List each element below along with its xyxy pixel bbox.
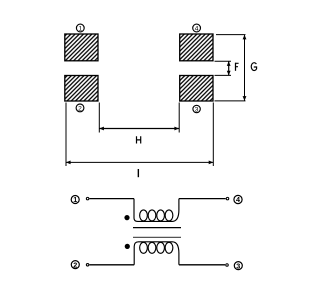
core line 1: [133, 227, 181, 229]
dimension G line with arrows: [244, 35, 246, 101]
terminal pin 4: [226, 197, 229, 200]
dimension F extension lines: [215, 61, 232, 75]
pin label 1 (schematic): [71, 195, 79, 204]
dimension I extension lines: [66, 103, 213, 167]
terminal pin 2: [86, 264, 89, 267]
pin label 2 (schematic): [71, 260, 79, 269]
svg-text:1: 1: [78, 25, 82, 32]
wire coil to pin4: [179, 198, 226, 200]
pad 1 (top-left, hatched): [65, 34, 98, 61]
polarity dot L1: [124, 215, 129, 220]
dimension H line with arrows: [99, 128, 179, 130]
label F: [235, 63, 239, 71]
svg-text:2: 2: [73, 260, 77, 269]
pin label 1 (top drawing): [76, 24, 84, 32]
polarity dot L2: [125, 244, 130, 249]
terminal pin 1: [86, 197, 89, 200]
pin label 2 (top drawing): [76, 104, 84, 112]
pad 3 (bottom-right, hatched): [180, 76, 213, 102]
pin label 4 (top drawing): [193, 24, 201, 32]
svg-text:4: 4: [195, 25, 199, 32]
wire pin2 to coil: [89, 264, 134, 266]
wire coil to pin3: [179, 264, 225, 266]
dimension H extension lines: [99, 103, 179, 133]
pad 2 (bottom-left, hatched): [65, 76, 98, 102]
dimension F line with arrows: [228, 61, 230, 75]
dimension G extension lines: [215, 35, 246, 101]
pin label 3 (schematic): [234, 261, 242, 270]
wire pin1 to coil: [89, 198, 134, 200]
label G: [251, 63, 256, 71]
svg-text:3: 3: [236, 261, 240, 270]
svg-text:3: 3: [195, 106, 199, 113]
pad 4 (top-right, hatched): [180, 34, 213, 61]
core line 2: [133, 236, 181, 238]
terminal pin 3: [226, 264, 229, 267]
secondary winding L2: [134, 242, 179, 265]
pin label 3 (top drawing): [193, 105, 200, 113]
svg-text:1: 1: [73, 195, 77, 204]
svg-text:4: 4: [236, 195, 240, 204]
dimension I line with arrows: [66, 161, 213, 163]
primary winding L1: [134, 199, 179, 222]
label I: [137, 169, 139, 177]
pin label 4 (schematic): [234, 195, 242, 204]
svg-text:2: 2: [78, 105, 82, 112]
label H: [137, 136, 141, 143]
